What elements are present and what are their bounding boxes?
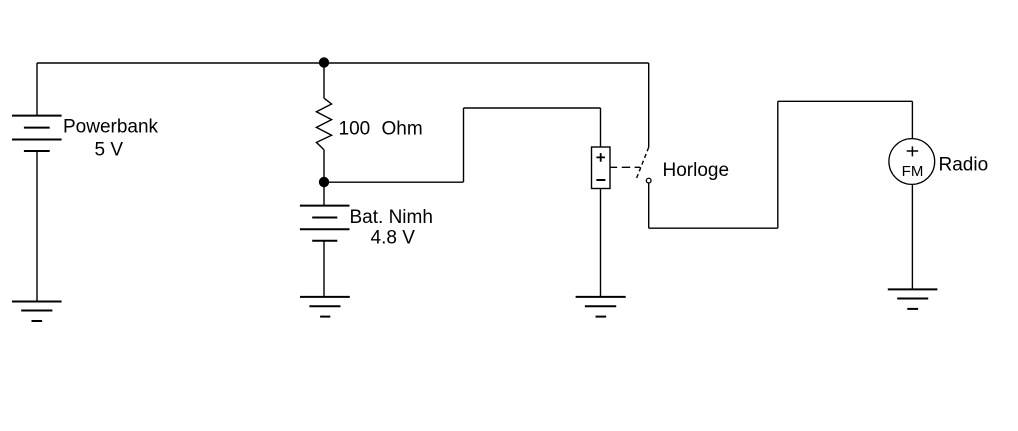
- wire radio feed vertical riser: [777, 101, 779, 228]
- ground radio: [888, 289, 938, 309]
- ground nimh: [300, 297, 350, 317]
- junction node top (resistor tap): [319, 57, 329, 67]
- wire resistor top lead: [323, 63, 325, 98]
- wire clock feed vertical riser: [463, 108, 465, 182]
- svg-text:Bat. Nimh: Bat. Nimh: [350, 207, 433, 228]
- wire top bus from powerbank to switch: [37, 62, 649, 64]
- clock timer cell box with polarity: [592, 147, 611, 189]
- wire switch output vertical drop: [648, 183, 650, 228]
- source Radio FM circle: [889, 139, 935, 185]
- svg-text:4.8 V: 4.8 V: [371, 228, 416, 249]
- svg-text:FM: FM: [902, 163, 924, 180]
- switch Horloge lever (dashed): [636, 147, 649, 179]
- svg-text:Powerbank: Powerbank: [63, 117, 159, 138]
- wire resistor bottom lead: [323, 150, 325, 182]
- wire powerbank negative lead: [36, 151, 38, 302]
- wire powerbank positive lead: [36, 63, 38, 116]
- wire switch top lead: [648, 63, 650, 147]
- wire mid node to clock horizontal segment: [324, 181, 464, 183]
- ground clock: [576, 297, 626, 317]
- wire nimh positive lead: [323, 182, 325, 206]
- svg-text:Horloge: Horloge: [663, 160, 730, 181]
- wire radio negative lead: [911, 184, 913, 289]
- junction node mid (nimh tap): [319, 177, 329, 187]
- svg-text:100: 100: [339, 119, 371, 140]
- dashed actuator link clock to switch: [610, 166, 641, 168]
- svg-text:Ohm: Ohm: [382, 119, 423, 140]
- battery Bat. Nimh 4.8V: [300, 206, 350, 241]
- battery Powerbank 5V: [12, 116, 62, 151]
- ground powerbank: [12, 302, 62, 322]
- svg-text:5 V: 5 V: [95, 140, 124, 161]
- wire clock positive lead: [600, 108, 602, 147]
- wire radio feed top horizontal: [778, 100, 913, 102]
- wire switch output bottom horizontal: [649, 227, 778, 229]
- resistor 100 Ohm: [316, 98, 331, 150]
- svg-text:Radio: Radio: [939, 155, 989, 176]
- wire clock feed top horizontal segment: [464, 107, 601, 109]
- wire radio positive lead: [911, 101, 913, 139]
- wire clock negative lead: [600, 189, 602, 298]
- wire nimh negative lead: [323, 241, 325, 297]
- switch Horloge contact circle: [646, 178, 651, 183]
